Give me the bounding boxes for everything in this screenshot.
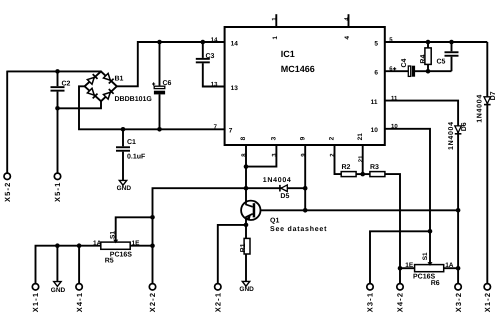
svg-text:3: 3 bbox=[271, 136, 278, 140]
svg-text:1A: 1A bbox=[445, 262, 454, 269]
svg-text:2: 2 bbox=[329, 136, 336, 140]
svg-text:GND: GND bbox=[51, 287, 66, 294]
svg-text:X2-2: X2-2 bbox=[148, 292, 157, 312]
svg-text:R6: R6 bbox=[431, 280, 440, 287]
svg-text:MC1466: MC1466 bbox=[281, 64, 315, 74]
svg-text:9: 9 bbox=[299, 136, 306, 140]
svg-text:C1: C1 bbox=[127, 139, 136, 146]
svg-text:D7: D7 bbox=[490, 91, 497, 100]
svg-text:10: 10 bbox=[371, 127, 379, 134]
svg-text:6: 6 bbox=[374, 70, 378, 77]
svg-text:X1-1: X1-1 bbox=[31, 292, 40, 312]
svg-text:1N4004: 1N4004 bbox=[263, 177, 292, 184]
svg-text:X5-2: X5-2 bbox=[3, 182, 12, 202]
svg-text:X1-2: X1-2 bbox=[483, 292, 492, 312]
svg-text:C5: C5 bbox=[437, 58, 446, 65]
svg-text:B1: B1 bbox=[115, 76, 124, 83]
svg-text:S1: S1 bbox=[422, 252, 429, 260]
svg-text:21: 21 bbox=[357, 133, 364, 141]
svg-text:D5: D5 bbox=[280, 193, 289, 200]
svg-text:R5: R5 bbox=[105, 257, 114, 264]
svg-text:C6: C6 bbox=[163, 80, 172, 87]
svg-text:GND: GND bbox=[239, 286, 254, 293]
svg-text:Q1: Q1 bbox=[270, 217, 279, 224]
svg-text:R4: R4 bbox=[420, 55, 427, 64]
svg-text:R1: R1 bbox=[240, 243, 247, 252]
svg-text:IC1: IC1 bbox=[281, 49, 295, 59]
svg-text:8: 8 bbox=[240, 136, 247, 140]
svg-text:S1: S1 bbox=[109, 231, 116, 239]
svg-text:13: 13 bbox=[231, 85, 239, 92]
svg-text:X5-1: X5-1 bbox=[53, 182, 62, 202]
svg-text:DBDB101G: DBDB101G bbox=[115, 96, 153, 103]
svg-text:X3-2: X3-2 bbox=[454, 292, 463, 312]
svg-text:1E: 1E bbox=[405, 262, 414, 269]
svg-text:C2: C2 bbox=[62, 81, 71, 88]
svg-text:10: 10 bbox=[391, 123, 398, 130]
svg-text:X4-2: X4-2 bbox=[396, 292, 405, 312]
svg-text:11: 11 bbox=[371, 99, 378, 106]
svg-text:11: 11 bbox=[391, 95, 398, 102]
svg-text:X2-1: X2-1 bbox=[214, 292, 223, 312]
svg-text:R3: R3 bbox=[370, 164, 379, 171]
svg-text:D6: D6 bbox=[461, 122, 468, 131]
svg-text:21: 21 bbox=[357, 155, 364, 162]
svg-text:4: 4 bbox=[344, 36, 351, 40]
svg-text:14: 14 bbox=[231, 40, 239, 47]
svg-text:X4-1: X4-1 bbox=[75, 292, 84, 312]
svg-text:13: 13 bbox=[211, 81, 218, 88]
svg-text:X3-1: X3-1 bbox=[366, 292, 375, 312]
svg-text:1N4004: 1N4004 bbox=[477, 94, 484, 123]
svg-text:1: 1 bbox=[272, 36, 279, 40]
svg-text:C3: C3 bbox=[206, 53, 215, 60]
svg-text:0.1uF: 0.1uF bbox=[127, 154, 146, 161]
svg-text:1A: 1A bbox=[93, 240, 102, 247]
svg-text:GND: GND bbox=[117, 185, 132, 192]
svg-text:1E: 1E bbox=[132, 240, 141, 247]
svg-text:C4: C4 bbox=[401, 58, 408, 67]
svg-text:7: 7 bbox=[229, 128, 233, 135]
svg-text:See datasheet: See datasheet bbox=[270, 225, 327, 233]
svg-text:1N4004: 1N4004 bbox=[448, 121, 455, 150]
svg-text:R2: R2 bbox=[342, 164, 351, 171]
svg-text:14: 14 bbox=[211, 36, 218, 43]
svg-text:5: 5 bbox=[374, 40, 378, 47]
